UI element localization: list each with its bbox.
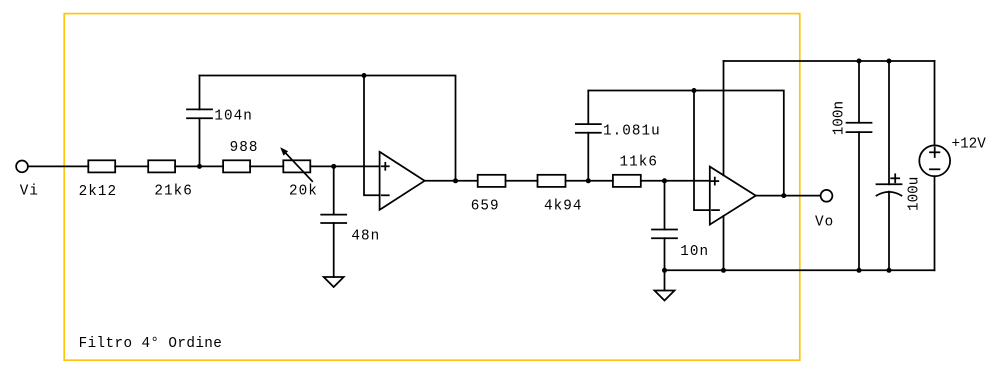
capacitor 1.081u	[587, 91, 589, 125]
wire 20k to node B	[310, 165, 379, 167]
svg-text:659: 659	[471, 199, 500, 215]
svg-text:10n: 10n	[680, 244, 709, 260]
op-amp U1	[380, 152, 425, 210]
op-amp U2 V+ pin	[723, 61, 725, 175]
wire 11k6 to op-amp U2	[641, 180, 710, 182]
wire feedback top stage 2	[588, 91, 784, 196]
node U1 out dot	[453, 178, 458, 183]
potentiometer arrow	[285, 152, 313, 181]
terminal Vi	[16, 161, 28, 173]
wire +12V top rail	[724, 60, 935, 62]
potentiometer 20k	[283, 160, 310, 172]
ground 2	[655, 291, 675, 301]
svg-text:4k94: 4k94	[544, 199, 583, 215]
svg-text:Vo: Vo	[815, 214, 834, 230]
capacitor 100u	[888, 61, 890, 184]
op-amp U2	[710, 167, 756, 225]
wire 988 to 20k	[250, 165, 283, 167]
svg-text:Filtro 4° Ordine: Filtro 4° Ordine	[79, 336, 223, 352]
svg-text:100n: 100n	[832, 101, 848, 135]
node top1 dot	[362, 73, 367, 78]
resistor 659	[478, 175, 506, 187]
node top2 dot	[692, 88, 697, 93]
ground 1	[324, 277, 344, 287]
node C dot	[586, 178, 591, 183]
capacitor 48n	[333, 166, 335, 214]
wire U2 output to Vo	[756, 195, 821, 197]
svg-text:20k: 20k	[289, 184, 318, 200]
resistor 988	[223, 160, 250, 172]
node gnd rail dot	[662, 268, 667, 273]
resistor 21k6	[148, 160, 175, 172]
resistor 2k12	[88, 160, 115, 172]
frame border	[64, 14, 800, 361]
wire R2 to node A	[175, 165, 223, 167]
wire 4k94 to node C	[566, 180, 613, 182]
node A dot	[197, 164, 202, 169]
svg-text:100u: 100u	[906, 177, 922, 211]
node 100n top dot	[857, 59, 862, 64]
node D dot	[662, 178, 667, 183]
resistor 4k94	[538, 175, 566, 187]
svg-text:21k6: 21k6	[154, 183, 193, 199]
wire Vi to R1	[28, 165, 88, 167]
node 100n bottom dot	[857, 268, 862, 273]
wire U1 output to 659	[425, 180, 478, 182]
svg-text:1.081u: 1.081u	[603, 124, 661, 140]
node 100u bottom dot	[887, 268, 892, 273]
wire top to inverting input U2	[694, 91, 710, 211]
capacitor 10n	[664, 181, 666, 230]
svg-text:48n: 48n	[351, 229, 380, 245]
svg-text:988: 988	[230, 140, 259, 156]
wire feedback top stage 1	[200, 76, 456, 181]
svg-text:2k12: 2k12	[79, 184, 118, 200]
wire top to inverting input	[364, 76, 380, 196]
node B dot	[331, 164, 336, 169]
node 100u top dot	[887, 59, 892, 64]
capacitor 104n	[199, 76, 201, 110]
terminal Vo	[821, 190, 833, 202]
source +12V	[934, 61, 936, 145]
wire R1 to R2	[115, 165, 148, 167]
op-amp U2 V- pin	[723, 216, 725, 270]
wire ground bottom rail	[665, 269, 935, 271]
wire 659 to 4k94	[506, 180, 538, 182]
node Vminus rail dot	[721, 268, 726, 273]
svg-text:+12V: +12V	[952, 137, 987, 153]
svg-text:11k6: 11k6	[620, 155, 659, 171]
svg-text:Vi: Vi	[20, 183, 39, 199]
resistor 11k6	[613, 175, 641, 187]
svg-text:104n: 104n	[214, 109, 253, 125]
node U2 out dot	[781, 193, 786, 198]
capacitor 100n	[858, 61, 860, 123]
